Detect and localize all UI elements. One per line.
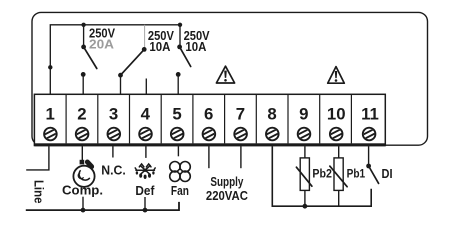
- svg-text:Pb2: Pb2: [312, 167, 332, 181]
- svg-text:7: 7: [236, 105, 245, 124]
- svg-text:10A: 10A: [185, 40, 206, 54]
- svg-text:N.C.: N.C.: [101, 164, 126, 178]
- svg-text:3: 3: [109, 105, 118, 124]
- svg-text:Fan: Fan: [171, 183, 189, 198]
- svg-text:Def: Def: [135, 183, 155, 198]
- svg-text:Supply: Supply: [210, 175, 243, 189]
- svg-text:5: 5: [172, 105, 181, 124]
- svg-text:9: 9: [299, 105, 308, 124]
- svg-text:DI: DI: [382, 167, 393, 181]
- svg-text:Comp.: Comp.: [62, 182, 103, 197]
- svg-text:11: 11: [361, 105, 379, 124]
- svg-text:20A: 20A: [89, 38, 114, 52]
- svg-text:10: 10: [327, 105, 346, 124]
- svg-text:6: 6: [204, 105, 213, 124]
- svg-text:Pb1: Pb1: [347, 167, 366, 181]
- svg-text:4: 4: [141, 105, 151, 124]
- svg-text:8: 8: [267, 105, 276, 124]
- svg-text:2: 2: [77, 105, 86, 124]
- svg-text:1: 1: [46, 105, 55, 124]
- svg-text:220VAC: 220VAC: [206, 189, 248, 203]
- svg-text:Line: Line: [31, 180, 46, 204]
- svg-text:10A: 10A: [149, 40, 170, 54]
